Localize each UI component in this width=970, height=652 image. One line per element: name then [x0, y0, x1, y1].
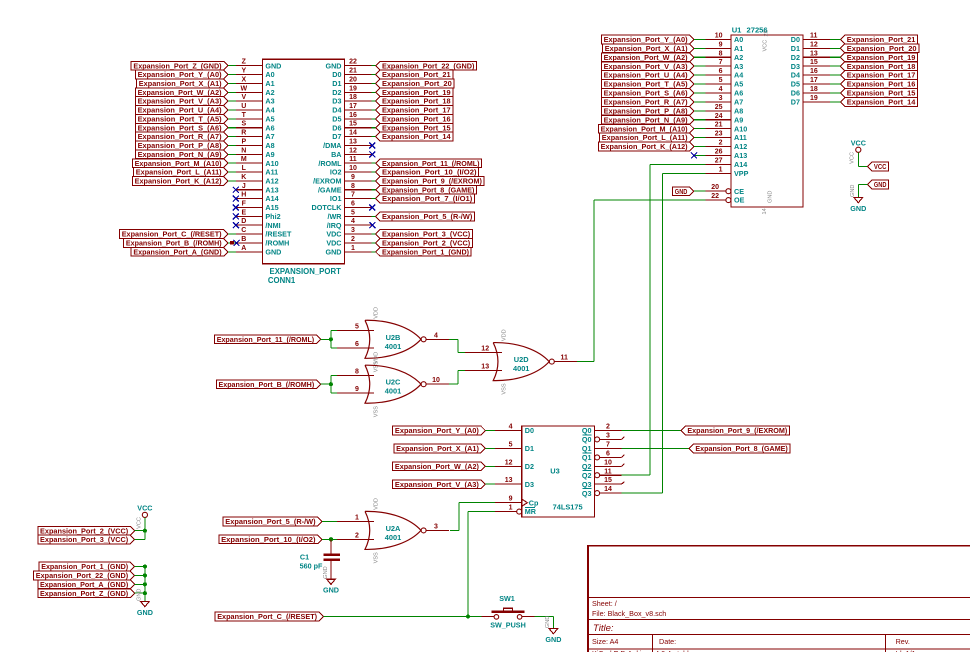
wire [371, 215, 375, 217]
svg-text:A7: A7 [734, 98, 743, 107]
wire [321, 338, 331, 340]
unconnected pin hook [622, 437, 625, 440]
pin 8 /GAME [345, 189, 372, 191]
wire [485, 447, 495, 449]
wire [228, 109, 236, 111]
pin W A2 [236, 91, 263, 93]
svg-text:6: 6 [606, 450, 610, 457]
svg-text:VPP: VPP [734, 169, 749, 178]
hierarchical label Expansion_Port_16 [840, 80, 917, 89]
pin 3 A7 [705, 101, 731, 103]
pin 22 OE [705, 199, 725, 201]
pin 17 D4 [345, 109, 372, 111]
pin 6 DOTCLK [345, 206, 372, 208]
hierarchical label Expansion_Port_P_(A8) [135, 141, 228, 150]
hierarchical label Expansion_Port_11_(/ROML) [215, 335, 321, 344]
svg-text:BA: BA [331, 150, 341, 159]
pin 2 [337, 538, 374, 540]
wire [144, 518, 146, 540]
svg-text:8: 8 [351, 183, 355, 190]
junction [143, 591, 147, 595]
hierarchical label Expansion_Port_21 [840, 35, 917, 44]
svg-text:18: 18 [810, 86, 818, 93]
wire [371, 91, 375, 93]
junction [466, 614, 470, 618]
svg-text:27: 27 [715, 157, 723, 164]
svg-text:C1: C1 [300, 553, 309, 562]
pin 12 D2 [495, 465, 522, 467]
wire [694, 101, 705, 103]
svg-text:Expansion_Port_W_(A2): Expansion_Port_W_(A2) [138, 88, 223, 97]
pin 13 [465, 370, 502, 372]
wire [830, 74, 841, 76]
hierarchical label Expansion_Port_N_(A9) [135, 150, 228, 159]
wire [228, 127, 236, 129]
pin 12 [465, 352, 502, 354]
hierarchical label Expansion_Port_2_(VCC) [376, 239, 473, 248]
svg-text:D3: D3 [525, 480, 534, 489]
svg-text:S: S [241, 121, 246, 128]
hierarchical label Expansion_Port_K_(A12) [132, 177, 228, 186]
svg-text:U2A: U2A [386, 524, 401, 533]
svg-text:16: 16 [349, 112, 357, 119]
svg-text:Expansion_Port_3_(VCC): Expansion_Port_3_(VCC) [40, 535, 129, 544]
hierarchical label Expansion_Port_W_(A2) [601, 53, 694, 62]
pin 25 A8 [705, 110, 731, 112]
svg-text:/ROML: /ROML [318, 159, 342, 168]
svg-text:Expansion_Port_8_(GAME): Expansion_Port_8_(GAME) [382, 185, 475, 194]
svg-text:14: 14 [604, 486, 612, 493]
svg-text:Expansion_Port_Z_(GND): Expansion_Port_Z_(GND) [133, 61, 222, 70]
svg-text:U: U [241, 103, 246, 110]
wire [534, 616, 553, 618]
svg-text:9: 9 [355, 386, 359, 393]
net A14 wire [650, 163, 706, 165]
svg-text:Expansion_Port_15: Expansion_Port_15 [382, 123, 451, 132]
pin D /NMI [236, 224, 263, 226]
pin 15 D3 [803, 65, 830, 67]
hierarchical label Expansion_Port_R_(A7) [135, 132, 228, 141]
hierarchical label GND [868, 180, 889, 189]
svg-text:/WR: /WR [328, 212, 343, 221]
svg-text:Expansion_Port_14: Expansion_Port_14 [847, 98, 917, 107]
hierarchical label Expansion_Port_15 [376, 123, 453, 132]
pin 3 [426, 529, 449, 531]
pin 6 [337, 347, 374, 349]
wire [371, 242, 375, 244]
hierarchical label Expansion_Port_S_(A6) [601, 89, 694, 98]
svg-text:16: 16 [810, 68, 818, 75]
svg-text:Expansion_Port_11_(/ROML): Expansion_Port_11_(/ROML) [382, 159, 480, 168]
svg-text:Expansion_Port_C_(/RESET): Expansion_Port_C_(/RESET) [122, 230, 222, 239]
svg-text:A2: A2 [734, 53, 743, 62]
no-connect [233, 213, 239, 219]
svg-text:12: 12 [481, 346, 489, 353]
hierarchical label Expansion_Port_2_(VCC) [38, 526, 135, 535]
wire [228, 144, 236, 146]
wire [135, 566, 145, 568]
wire [694, 137, 705, 139]
power VCC [856, 147, 861, 152]
wire [228, 118, 236, 120]
pin 9 Cp clock [495, 502, 522, 504]
svg-text:Expansion_Port_20: Expansion_Port_20 [847, 44, 917, 53]
ground [854, 198, 863, 203]
pin 4 /IRQ [345, 224, 372, 226]
pin 9 A1 [705, 47, 731, 49]
hierarchical label Expansion_Port_21 [376, 70, 453, 79]
wire [449, 338, 458, 340]
wire [459, 502, 495, 504]
hierarchical label Expansion_Port_22_(GND) [34, 571, 135, 580]
svg-text:14: 14 [349, 130, 357, 137]
svg-text:5: 5 [351, 209, 355, 216]
hierarchical label Expansion_Port_1_(GND) [39, 562, 135, 571]
pin 20 CE [705, 190, 725, 192]
svg-text:2: 2 [355, 532, 359, 539]
junction [329, 382, 333, 386]
wire [144, 567, 146, 602]
pin 10 [426, 383, 449, 385]
pin 21 A10 [705, 128, 731, 130]
svg-text:D1: D1 [791, 44, 800, 53]
svg-text:28: 28 [764, 30, 770, 36]
svg-text:A2: A2 [265, 88, 274, 97]
svg-text:15: 15 [349, 121, 357, 128]
wire [135, 530, 145, 532]
svg-text:Expansion_Port_A_(GND): Expansion_Port_A_(GND) [133, 247, 222, 256]
svg-text:12: 12 [349, 147, 357, 154]
wire [371, 171, 375, 173]
svg-text:9: 9 [351, 174, 355, 181]
wire [450, 529, 459, 531]
svg-text:Expansion_Port_5_(R-/W): Expansion_Port_5_(R-/W) [225, 517, 316, 526]
svg-text:D1: D1 [525, 444, 534, 453]
ground [141, 602, 150, 607]
pin 10 Q2 [595, 465, 622, 467]
hierarchical label Expansion_Port_L_(A11) [134, 168, 228, 177]
wire [694, 92, 705, 94]
pin 8 [337, 374, 374, 376]
svg-text:D6: D6 [332, 123, 341, 132]
hierarchical label Expansion_Port_9_(/EXROM) [681, 426, 790, 435]
svg-text:Q1: Q1 [582, 453, 592, 462]
svg-text:VDD: VDD [502, 329, 508, 341]
wire [622, 474, 650, 476]
svg-text:4001: 4001 [513, 364, 529, 373]
svg-text:GND: GND [850, 185, 856, 197]
svg-text:A11: A11 [265, 168, 278, 177]
svg-text:Expansion_Port_T_(A5): Expansion_Port_T_(A5) [604, 80, 689, 89]
wire [228, 171, 236, 173]
svg-text:VDD: VDD [374, 498, 380, 510]
svg-text:J: J [242, 183, 246, 190]
svg-text:Size: A4: Size: A4 [592, 637, 618, 646]
svg-text:GND: GND [137, 589, 143, 601]
unconnected pin hook [622, 482, 625, 485]
hierarchical label Expansion_Port_A_(GND) [38, 580, 135, 589]
wire [485, 430, 495, 432]
svg-text:13: 13 [810, 50, 818, 57]
hierarchical label Expansion_Port_U_(A4) [135, 106, 228, 115]
svg-text:24: 24 [715, 113, 723, 120]
hierarchical label Expansion_Port_19 [376, 88, 453, 97]
svg-text:A3: A3 [734, 62, 743, 71]
wire [371, 118, 375, 120]
pin C /RESET [236, 233, 263, 235]
svg-text:Rev.: Rev. [896, 637, 910, 646]
svg-text:Expansion_Port_22_(GND): Expansion_Port_22_(GND) [36, 571, 129, 580]
no-connect [233, 222, 239, 228]
svg-text:Expansion_Port_2_(VCC): Expansion_Port_2_(VCC) [40, 526, 129, 535]
svg-text:4001: 4001 [385, 342, 401, 351]
svg-text:560 pF: 560 pF [300, 561, 323, 570]
svg-text:Expansion_Port_R_(A7): Expansion_Port_R_(A7) [604, 98, 689, 107]
svg-text:Y: Y [241, 68, 246, 75]
pin 4 A6 [705, 92, 731, 94]
svg-text:SW1: SW1 [499, 594, 515, 603]
svg-text:GND: GND [545, 635, 561, 644]
svg-text:A11: A11 [734, 133, 747, 142]
wire [135, 539, 145, 541]
hierarchical label Expansion_Port_V_(A3) [135, 97, 228, 106]
svg-text:11: 11 [560, 355, 568, 362]
svg-text:R: R [241, 130, 246, 137]
svg-text:EXPANSION_PORT: EXPANSION_PORT [270, 267, 342, 276]
hierarchical label Expansion_Port_8_(GAME) [689, 444, 790, 453]
wire [135, 583, 145, 585]
pin L A11 [236, 171, 263, 173]
svg-text:L: L [242, 165, 247, 172]
wire [324, 616, 482, 618]
svg-text:Expansion_Port_19: Expansion_Port_19 [847, 53, 916, 62]
svg-text:F: F [242, 200, 247, 207]
wire [694, 56, 705, 58]
wire [371, 162, 375, 164]
svg-text:17: 17 [349, 103, 357, 110]
no-connect [369, 142, 375, 148]
wire [694, 65, 705, 67]
svg-text:Expansion_Port_21: Expansion_Port_21 [382, 70, 451, 79]
svg-text:A1: A1 [265, 79, 274, 88]
wire [694, 110, 705, 112]
wire [694, 190, 706, 192]
pin 22 GND [345, 65, 372, 67]
svg-text:D1: D1 [332, 79, 341, 88]
svg-text:D5: D5 [332, 114, 341, 123]
hierarchical label Expansion_Port_L_(A11) [600, 133, 694, 142]
wire [371, 251, 375, 253]
pin 15 Q3 [595, 483, 622, 485]
no-connect [234, 240, 240, 246]
svg-text:6: 6 [719, 68, 723, 75]
junction [143, 582, 147, 586]
wire [228, 74, 236, 76]
pin P A8 [236, 144, 263, 146]
unconnected pin hook [622, 455, 625, 458]
wire [330, 330, 332, 348]
svg-text:Date:: Date: [659, 637, 676, 646]
svg-text:21: 21 [349, 68, 357, 75]
hierarchical label Expansion_Port_V_(A3) [393, 480, 486, 489]
svg-text:Expansion_Port_S_(A6): Expansion_Port_S_(A6) [604, 89, 689, 98]
svg-text:E: E [241, 209, 246, 216]
hierarchical label Expansion_Port_B_(/ROMH) [124, 239, 228, 248]
svg-text:Expansion_Port_Y_(A0): Expansion_Port_Y_(A0) [395, 426, 480, 435]
pin E Phi2 [236, 215, 263, 217]
pin 10 A0 [705, 38, 731, 40]
pin 5 D1 [495, 447, 522, 449]
hierarchical label Expansion_Port_X_(A1) [603, 44, 694, 53]
svg-text:7: 7 [606, 441, 610, 448]
svg-text:Expansion_Port_W_(A2): Expansion_Port_W_(A2) [395, 462, 480, 471]
wire [830, 47, 841, 49]
wire [485, 465, 495, 467]
svg-text:D5: D5 [791, 80, 800, 89]
svg-text:Expansion_Port_5_(R-/W): Expansion_Port_5_(R-/W) [382, 212, 473, 221]
pin K A12 [236, 180, 263, 182]
svg-text:Phi2: Phi2 [265, 212, 280, 221]
wire [830, 101, 841, 103]
svg-text:Expansion_Port_P_(A8): Expansion_Port_P_(A8) [138, 141, 223, 150]
svg-text:VCC: VCC [137, 504, 152, 513]
svg-text:K: K [241, 174, 246, 181]
svg-text:D3: D3 [332, 97, 341, 106]
hierarchical label Expansion_Port_S_(A6) [135, 123, 228, 132]
hierarchical label Expansion_Port_18 [840, 62, 917, 71]
svg-text:10: 10 [604, 459, 612, 466]
pin 2 A12 [705, 146, 731, 148]
wire [694, 74, 705, 76]
hierarchical label Expansion_Port_20 [376, 79, 454, 88]
wire [330, 375, 332, 393]
svg-text:A0: A0 [265, 70, 274, 79]
svg-text:OE: OE [734, 196, 745, 205]
wire [485, 483, 495, 485]
svg-text:3: 3 [606, 432, 610, 439]
svg-text:26: 26 [715, 148, 723, 155]
svg-text:U3: U3 [550, 467, 559, 476]
svg-text:19: 19 [810, 95, 818, 102]
svg-text:Expansion_Port_18: Expansion_Port_18 [847, 62, 916, 71]
wire [694, 38, 705, 40]
pin 13 D2 [803, 56, 830, 58]
wire [371, 233, 375, 235]
EPROM U1 27256 body [731, 35, 803, 207]
svg-text:Expansion_Port_L_(A11): Expansion_Port_L_(A11) [136, 168, 222, 177]
pin 7 A3 [705, 65, 731, 67]
svg-text:A5: A5 [734, 80, 743, 89]
hierarchical label Expansion_Port_C_(/RESET) [215, 612, 324, 621]
hierarchical label Expansion_Port_3_(VCC) [376, 230, 473, 239]
pin 11 /ROML [345, 162, 372, 164]
svg-text:3: 3 [351, 227, 355, 234]
wire [228, 136, 236, 138]
pin 11 Q2 inverted [595, 473, 600, 478]
hierarchical label Expansion_Port_14 [376, 132, 453, 141]
svg-text:Expansion_Port_14: Expansion_Port_14 [382, 132, 452, 141]
svg-text:V: V [241, 94, 246, 101]
no-connect [369, 204, 375, 210]
svg-text:VDD: VDD [374, 307, 380, 319]
svg-text:SW_PUSH: SW_PUSH [490, 621, 526, 630]
svg-text:D4: D4 [332, 106, 341, 115]
svg-text:VDC: VDC [326, 239, 341, 248]
pin 1 MR [495, 511, 517, 513]
svg-text:3: 3 [434, 523, 438, 530]
svg-text:A15: A15 [265, 203, 278, 212]
svg-text:CONN1: CONN1 [268, 276, 296, 285]
svg-text:A14: A14 [265, 194, 278, 203]
NOR gate U2A 4001 [337, 498, 449, 563]
pin 11 D0 [803, 38, 830, 40]
svg-text:Expansion_Port_15: Expansion_Port_15 [847, 89, 916, 98]
wire [858, 183, 867, 185]
hierarchical label Expansion_Port_P_(A8) [601, 106, 694, 115]
svg-text:GND: GND [137, 608, 153, 617]
svg-text:17: 17 [810, 77, 818, 84]
hierarchical label Expansion_Port_U_(A4) [601, 71, 694, 80]
hierarchical label Expansion_Port_X_(A1) [394, 444, 485, 453]
svg-text:H: H [241, 192, 246, 199]
capacitor C1 560pF [300, 539, 340, 579]
svg-text:Expansion_Port_K_(A12): Expansion_Port_K_(A12) [601, 142, 689, 151]
svg-text:A1: A1 [734, 44, 743, 53]
pin 6 Q1 inverted [595, 455, 600, 460]
svg-text:A12: A12 [265, 177, 278, 186]
hierarchical label Expansion_Port_15 [840, 89, 917, 98]
svg-text:3: 3 [719, 95, 723, 102]
svg-text:Expansion_Port_B_(/ROMH): Expansion_Port_B_(/ROMH) [126, 239, 222, 248]
pin A GND [236, 251, 263, 253]
svg-text:21: 21 [715, 122, 723, 129]
pin 6 A4 [705, 74, 731, 76]
hierarchical label Expansion_Port_A_(GND) [131, 247, 228, 256]
svg-text:VSS: VSS [374, 552, 380, 563]
wire [321, 383, 331, 385]
pin 12 BA [345, 153, 372, 155]
connector CONN1 EXPANSION_PORT body [262, 59, 344, 264]
svg-text:Expansion_Port_C_(/RESET): Expansion_Port_C_(/RESET) [217, 612, 317, 621]
hierarchical label Expansion_Port_K_(A12) [598, 142, 694, 151]
svg-text:9: 9 [509, 496, 513, 503]
wire [135, 574, 145, 576]
wire [322, 521, 337, 523]
pin 4 [426, 338, 449, 340]
hierarchical label VCC [868, 162, 889, 171]
hierarchical label Expansion_Port_7_(I/O1) [376, 194, 475, 203]
svg-text:8: 8 [719, 50, 723, 57]
svg-text:20: 20 [349, 76, 357, 83]
wire [371, 100, 375, 102]
pin 8 A2 [705, 56, 731, 58]
svg-text:Expansion_Port_M_(A10): Expansion_Port_M_(A10) [135, 159, 223, 168]
hierarchical label Expansion_Port_10_(I/O2) [219, 535, 322, 544]
svg-text:4: 4 [434, 332, 438, 339]
pin 27 A14 [705, 163, 731, 165]
hierarchical label Expansion_Port_X_(A1) [137, 79, 228, 88]
svg-text:9: 9 [719, 41, 723, 48]
svg-text:D6: D6 [791, 89, 800, 98]
hierarchical label Expansion_Port_16 [376, 115, 453, 124]
svg-text:GND: GND [545, 616, 551, 628]
svg-text:5: 5 [509, 441, 513, 448]
pin 7 IO1 [345, 198, 372, 200]
junction [143, 573, 147, 577]
svg-text:A9: A9 [734, 115, 743, 124]
svg-text:Expansion_Port_U_(A4): Expansion_Port_U_(A4) [604, 71, 689, 80]
svg-text:GND: GND [265, 61, 281, 70]
